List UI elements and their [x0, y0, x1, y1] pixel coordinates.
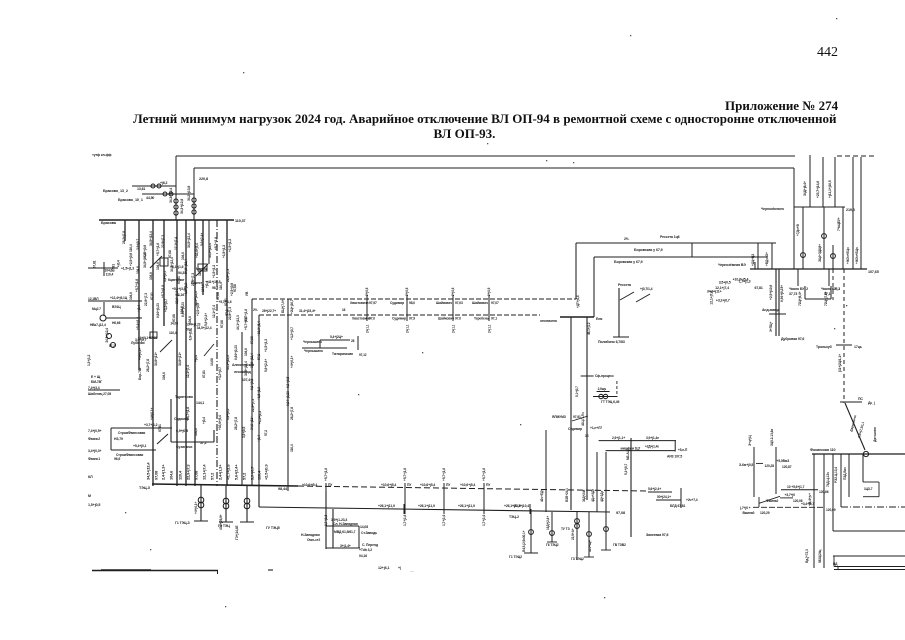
svg-text:22,9+j7,3: 22,9+j7,3	[251, 399, 255, 412]
svg-text:120,87: 120,87	[782, 465, 792, 469]
svg-text:3,9+j0,7: 3,9+j0,7	[136, 239, 140, 250]
svg-text:БЦ+j7,4+: БЦ+j7,4+	[281, 299, 285, 313]
svg-text:94,16: 94,16	[176, 293, 184, 297]
svg-text:ПУ: ПУ	[407, 483, 412, 487]
svg-text:Чернышино: Чернышино	[304, 349, 323, 353]
svg-text:2,4+j1,3+: 2,4+j1,3+	[218, 464, 223, 480]
svg-text:Шайкович: Шайкович	[472, 301, 488, 305]
svg-text:МЗ-АЦ3: МЗ-АЦ3	[626, 448, 630, 460]
svg-text:97,0: 97,0	[455, 317, 461, 321]
svg-text:120,29: 120,29	[760, 511, 770, 515]
svg-text:+ЖЗч+ЕЦч: +ЖЗч+ЕЦч	[846, 247, 850, 264]
svg-text:34Д+j8,4+: 34Д+j8,4+	[803, 181, 807, 196]
svg-text:2+j1,1: 2+j1,1	[452, 324, 456, 333]
svg-text:98,0: 98,0	[409, 301, 415, 305]
svg-text:12,1+j7,4: 12,1+j7,4	[212, 305, 216, 318]
svg-text:34,5+j12,4: 34,5+j12,4	[187, 233, 191, 248]
svg-text:34,9+j11+: 34,9+j11+	[250, 416, 254, 430]
svg-text:ПС: ПС	[858, 397, 863, 401]
svg-text:44,1+j12,3: 44,1+j12,3	[236, 315, 240, 330]
svg-text:Полибино 6,7/83: Полибино 6,7/83	[598, 340, 625, 344]
svg-text:Брасово_10_1: Брасово_10_1	[118, 198, 143, 202]
svg-text:РЭ2-Ц-13,4: РЭ2-Ц-13,4	[834, 467, 838, 483]
svg-text:Шайкович: Шайкович	[438, 317, 454, 321]
svg-text:+5,7+j1,6: +5,7+j1,6	[482, 468, 486, 481]
svg-text:0,94+j0,23: 0,94+j0,23	[234, 345, 238, 360]
svg-text:74Д-Ц-1Зч: 74Д-Ц-1Зч	[826, 472, 830, 487]
svg-text:14,08: 14,08	[360, 525, 368, 529]
svg-text:мищфам 1Ц7: мищфам 1Ц7	[621, 447, 641, 451]
svg-text:67,81: 67,81	[158, 424, 162, 432]
svg-text:2+j0,6: 2+j0,6	[405, 287, 409, 296]
svg-text:+5,7+j1,6: +5,7+j1,6	[214, 237, 218, 250]
svg-text:34,2+j13,8: 34,2+j13,8	[187, 186, 191, 201]
svg-text:+10,6+j5,4: +10,6+j5,4	[218, 415, 222, 430]
svg-text:0,94+j0,23+: 0,94+j0,23+	[780, 285, 784, 302]
svg-text:2+j1,1: 2+j1,1	[488, 324, 492, 333]
svg-text:Рессета 1ц6: Рессета 1ц6	[660, 235, 680, 239]
svg-text:+5,7+j1,6: +5,7+j1,6	[218, 300, 231, 304]
svg-text:Фаянс1: Фаянс1	[88, 457, 100, 461]
svg-text:+5,н-П: +5,н-П	[678, 448, 688, 452]
svg-text:Сф-процесс: Сф-процесс	[595, 374, 614, 378]
svg-text:+j0,4: +j0,4	[137, 305, 141, 312]
svg-text:+3,2+j0,7: +3,2+j0,7	[218, 367, 222, 380]
svg-text:28,2+j7,8: 28,2+j7,8	[234, 417, 238, 430]
svg-text:34,5+j12,4: 34,5+j12,4	[208, 243, 212, 258]
svg-text:4Д+2Де: 4Д+2Де	[600, 491, 604, 502]
svg-text:+5,4+j0,1: +5,4+j0,1	[133, 444, 147, 448]
svg-text:+ДТ+j0,4: +ДТ+j0,4	[576, 295, 580, 308]
svg-text:1,7+j1,6: 1,7+j1,6	[482, 515, 486, 526]
svg-text:41Ц-П-Лч: 41Ц-П-Лч	[581, 412, 585, 426]
svg-text:+4+j0,1+: +4+j0,1+	[290, 356, 294, 368]
svg-text:Боровская у 67,9: Боровская у 67,9	[614, 260, 643, 264]
svg-text:57,2: 57,2	[225, 309, 229, 315]
svg-text:110,4: 110,4	[290, 444, 294, 452]
svg-text:2%: 2%	[624, 237, 629, 241]
svg-text:+5,7+j1,6: +5,7+j1,6	[403, 468, 407, 481]
svg-text:Елм: Елм	[596, 317, 603, 321]
svg-text:Фжина2: Фжина2	[766, 499, 779, 503]
svg-text:17ць: 17ць	[854, 345, 862, 349]
svg-text:НВк7-j12,4: НВк7-j12,4	[90, 323, 106, 327]
svg-text:14,08: 14,08	[210, 358, 214, 366]
svg-text:Г1 ТЭЦ-З: Г1 ТЭЦ-З	[175, 521, 191, 525]
svg-text:Фокинская 110: Фокинская 110	[810, 448, 836, 452]
svg-text:+5,7+j1,6: +5,7+j1,6	[226, 464, 231, 480]
svg-text:13,61: 13,61	[137, 187, 145, 191]
svg-text:97,91: 97,91	[573, 415, 581, 419]
svg-text:97,12: 97,12	[359, 353, 367, 357]
svg-text:БМ-78Г: БМ-78Г	[91, 380, 102, 384]
svg-text:Судимир: Судимир	[390, 301, 404, 305]
svg-text:104,6: 104,6	[105, 268, 113, 272]
svg-text:16: 16	[342, 308, 346, 312]
svg-text:6,9+j0,5: 6,9+j0,5	[286, 377, 290, 388]
svg-text:12,1ВЛ: 12,1ВЛ	[88, 297, 99, 301]
svg-text:34,3+j12,4: 34,3+j12,4	[169, 188, 173, 203]
svg-text:(11+j2Ц/1,1+: (11+j2Ц/1,1+	[838, 354, 842, 372]
svg-text:72Ц+j7,4+: 72Ц+j7,4+	[824, 291, 828, 306]
svg-text:104,6: 104,6	[244, 348, 248, 356]
svg-text:2+j0,6: 2+j0,6	[487, 287, 491, 296]
svg-text:Чкало БУ_2: Чкало БУ_2	[789, 287, 808, 291]
svg-text:Тяглоримская: Тяглоримская	[332, 352, 353, 356]
svg-text:ВЭ1Ц: ВЭ1Ц	[112, 305, 121, 309]
svg-text:+ЖЗч+БЦч: +ЖЗч+БЦч	[855, 247, 859, 264]
svg-text:В4,5-j2,9х30,1+: В4,5-j2,9х30,1+	[522, 530, 526, 552]
svg-text:7,4+j0,5+: 7,4+j0,5+	[88, 429, 102, 433]
svg-text:М: М	[88, 494, 91, 498]
svg-text:+26,1+j11,9: +26,1+j11,9	[378, 504, 395, 508]
svg-text:12+j6,1: 12+j6,1	[378, 566, 389, 570]
svg-text:ВЗВ+24,1: ВЗВ+24,1	[565, 488, 569, 502]
svg-text:3,5+j0,5: 3,5+j0,5	[719, 281, 731, 285]
svg-text:12,1+j7,4: 12,1+j7,4	[202, 464, 207, 480]
svg-text:5,4+j2Ц+: 5,4+j2Ц+	[330, 335, 343, 339]
svg-text:+2Д+j1,4е: +2Д+j1,4е	[645, 445, 659, 449]
svg-text:+10,6+j5,4: +10,6+j5,4	[460, 483, 475, 487]
svg-text:ПУ: ПУ	[446, 483, 451, 487]
svg-text:67,81: 67,81	[754, 286, 762, 290]
svg-text:1,7+j1,3: 1,7+j1,3	[739, 279, 751, 283]
svg-text:7,4+j3,4: 7,4+j3,4	[88, 386, 100, 390]
svg-text:Хвастовичи: Хвастовичи	[352, 317, 371, 321]
svg-text:0,94+j0,23: 0,94+j0,23	[181, 302, 185, 317]
svg-text:ЗЦ5-2-13,4в: ЗЦ5-2-13,4в	[770, 429, 774, 446]
svg-text:5,1+j0,7: 5,1+j0,7	[624, 464, 628, 475]
svg-text:97,07: 97,07	[491, 301, 499, 305]
svg-text:104,6: 104,6	[162, 372, 166, 380]
svg-text:ЗЦ4+ЗДЦ9+: ЗЦ4+ЗДЦ9+	[818, 244, 822, 262]
svg-text:97,08: 97,08	[216, 292, 220, 300]
svg-text:94,34: 94,34	[178, 271, 186, 275]
svg-text:97,1: 97,1	[491, 317, 497, 321]
svg-text:БЛД 67,81: БЛД 67,81	[670, 504, 685, 508]
svg-text:1ЦЗ-7: 1ЦЗ-7	[864, 487, 873, 491]
svg-text:Чернозёмного: Чернозёмного	[761, 207, 784, 211]
svg-text:+j0,7/1,4: +j0,7/1,4	[640, 287, 653, 291]
svg-text:Фаянс2: Фаянс2	[88, 437, 100, 441]
svg-text:+3,2+j0,7: +3,2+j0,7	[716, 299, 730, 303]
svg-text:1,7+j1,6: 1,7+j1,6	[403, 515, 407, 526]
svg-text:97,03: 97,03	[455, 301, 463, 305]
svg-text:+j0,4: +j0,4	[257, 435, 261, 442]
svg-text:107,65: 107,65	[868, 270, 879, 274]
svg-text:Дубровка 97,6: Дубровка 97,6	[781, 337, 804, 341]
svg-text:+12,4+j9,1Ц: +12,4+j9,1Ц	[110, 296, 128, 300]
svg-text:Шибенец 27,08: Шибенец 27,08	[88, 392, 111, 396]
svg-text:57,2: 57,2	[210, 472, 215, 480]
svg-text:57,2: 57,2	[264, 430, 268, 436]
svg-text:лесозавод: лесозавод	[234, 370, 252, 374]
svg-text:2,9+j1,1+: 2,9+j1,1+	[612, 436, 625, 440]
svg-text:96,9: 96,9	[114, 457, 120, 461]
svg-text:+3,2+j0,7: +3,2+j0,7	[290, 327, 294, 340]
svg-text:+j0,4: +j0,4	[117, 260, 121, 267]
svg-text:АИЗ 107,5: АИЗ 107,5	[667, 455, 682, 459]
svg-text:+j0,4: +j0,4	[202, 417, 206, 424]
svg-text:34Д+24е: 34Д+24е	[582, 489, 586, 502]
svg-text:2,9щч: 2,9щч	[598, 387, 607, 391]
svg-text:+3,2+j0,7: +3,2+j0,7	[164, 299, 168, 312]
svg-text:49,1+j1,2: 49,1+j1,2	[587, 322, 591, 335]
svg-text:Алексеевская: Алексеевская	[232, 363, 254, 367]
svg-text:+5,7+j1,6: +5,7+j1,6	[442, 468, 446, 481]
svg-text:+10,6+j5,4: +10,6+j5,4	[420, 483, 435, 487]
svg-text:+21,3+j10,4: +21,3+j10,4	[512, 504, 529, 508]
svg-text:КЛ: КЛ	[88, 475, 93, 479]
svg-text:42ч+ЕД+: 42ч+ЕД+	[540, 489, 544, 502]
svg-text:44,50: 44,50	[146, 196, 154, 200]
svg-text:+23,7+j14,6: +23,7+j14,6	[816, 181, 820, 198]
svg-text:97,08: 97,08	[616, 511, 625, 515]
svg-text:110,4: 110,4	[257, 470, 262, 480]
svg-text:104,6: 104,6	[156, 262, 160, 270]
svg-text:Рессета: Рессета	[618, 283, 631, 287]
svg-text:44,1+j12,3: 44,1+j12,3	[226, 355, 230, 370]
svg-text:50+j24,1+: 50+j24,1+	[657, 495, 671, 499]
svg-text:5,6+j2,4+: 5,6+j2,4+	[264, 359, 268, 372]
svg-text:67,81: 67,81	[202, 370, 206, 378]
svg-text:+ВДч+О+: +ВДч+О+	[765, 252, 769, 266]
svg-text:16Д+j2,4+: 16Д+j2,4+	[546, 516, 550, 530]
svg-text:Мц2.7: Мц2.7	[92, 307, 101, 311]
svg-text:97,9: 97,9	[409, 317, 415, 321]
svg-text:107,4: 107,4	[242, 378, 250, 382]
svg-text:Ст.Заводь: Ст.Заводь	[361, 531, 377, 535]
svg-text:31,4+j23,4+: 31,4+j23,4+	[299, 309, 316, 313]
svg-text:12,1+j7,4: 12,1+j7,4	[186, 365, 190, 378]
svg-text:Зикеевка 97,6: Зикеевка 97,6	[646, 533, 668, 537]
svg-text:6,9+j0,5: 6,9+j0,5	[226, 409, 230, 420]
svg-text:ТУ ТЗ: ТУ ТЗ	[561, 527, 570, 531]
svg-text:Тролькуб: Тролькуб	[816, 345, 833, 349]
svg-text:97,08: 97,08	[154, 470, 159, 480]
svg-text:Судимир: Судимир	[392, 317, 406, 321]
svg-text:97,0: 97,0	[369, 317, 375, 321]
svg-text:Кцветоват: Кцветоват	[168, 278, 185, 282]
svg-text:+4+j0,1+: +4+j0,1+	[150, 408, 154, 420]
svg-text:+10,6+j5,4: +10,6+j5,4	[257, 321, 261, 336]
svg-text:144,1: 144,1	[196, 401, 204, 405]
svg-text:+26,1+j11,9: +26,1+j11,9	[458, 504, 475, 508]
svg-text:34,9+j11+: 34,9+j11+	[178, 352, 182, 366]
svg-text:2,4+j1,3+: 2,4+j1,3+	[161, 464, 166, 480]
svg-text:Лубянки: Лубянки	[131, 341, 144, 345]
svg-text:Чернышино: Чернышино	[303, 340, 322, 344]
svg-text:22,9+j7,3: 22,9+j7,3	[226, 269, 230, 282]
svg-text:+1,5+j1,3: +1,5+j1,3	[228, 239, 232, 252]
svg-text:+1,5+j1,3: +1,5+j1,3	[212, 265, 216, 278]
svg-text:+5,1+j3,8: +5,1+j3,8	[172, 287, 186, 291]
svg-text:+ДЦ+ЦЗ: +ДЦ+ЦЗ	[751, 254, 755, 266]
svg-text:10 +5,6+j1,7: 10 +5,6+j1,7	[787, 485, 805, 489]
svg-text:Н-Западная: Н-Западная	[301, 533, 320, 537]
svg-text:04,16: 04,16	[359, 554, 367, 558]
svg-text:+1,5+j1,3: +1,5+j1,3	[257, 387, 261, 400]
svg-text:2%: 2%	[253, 308, 258, 312]
svg-text:28,2+j7,8: 28,2+j7,8	[146, 359, 150, 372]
svg-text:110,4: 110,4	[169, 331, 177, 335]
svg-text:2+j1,1: 2+j1,1	[406, 324, 410, 333]
svg-text:72Ц+j9,4+: 72Ц+j9,4+	[798, 291, 802, 306]
svg-text:3+ПЦ+: 3+ПЦ+	[769, 322, 773, 332]
svg-text:+10,6+j5,4: +10,6+j5,4	[381, 483, 396, 487]
svg-text:98,5: 98,5	[212, 286, 218, 290]
svg-text:+2,5+j10,9: +2,5+j10,9	[769, 285, 773, 300]
svg-text:+Тdb 3,2: +Тdb 3,2	[359, 548, 372, 552]
svg-text:34,3+j12,8: 34,3+j12,8	[180, 199, 184, 214]
svg-text:ПУ: ПУ	[486, 483, 491, 487]
svg-text:Е + Щ: Е + Щ	[91, 375, 101, 379]
svg-text:1,5+j0,5: 1,5+j0,5	[88, 503, 100, 507]
svg-text:СтромФаянсовая: СтромФаянсовая	[118, 431, 145, 435]
svg-text:3,9+j0,7: 3,9+j0,7	[250, 467, 255, 480]
svg-text:22,9+j7,3: 22,9+j7,3	[186, 464, 191, 480]
svg-text:120,66: 120,66	[819, 490, 829, 494]
svg-text:41ч+Щ+: 41ч+Щ+	[588, 540, 592, 552]
svg-text:+j0,4: +j0,4	[194, 355, 198, 362]
svg-text:0,94+j0,23: 0,94+j0,23	[156, 303, 160, 318]
svg-text:57,2: 57,2	[200, 441, 207, 445]
svg-text:__: __	[409, 568, 415, 572]
svg-text:Брасово_13_2: Брасово_13_2	[103, 189, 128, 193]
svg-text:Боровская у 67,9: Боровская у 67,9	[634, 248, 663, 252]
svg-text:З-Км+j0,5: З-Км+j0,5	[739, 463, 753, 467]
svg-text:+5,7+j1,6: +5,7+j1,6	[161, 285, 165, 298]
svg-text:+1,5+j1,3: +1,5+j1,3	[258, 411, 262, 424]
svg-text:«утф кл-фф: «утф кл-фф	[92, 153, 111, 157]
svg-text:104,6: 104,6	[129, 292, 133, 300]
svg-text:120,28: 120,28	[765, 464, 775, 468]
svg-text:110,4: 110,4	[178, 470, 183, 480]
svg-text:34,5+j12,4: 34,5+j12,4	[149, 231, 153, 246]
svg-text:5,6+j2,4+: 5,6+j2,4+	[200, 233, 204, 246]
svg-text:+10,6+j5,4: +10,6+j5,4	[195, 243, 199, 258]
svg-text:ТЭЦ-2: ТЭЦ-2	[509, 515, 519, 519]
svg-text:+j6,2: +j6,2	[160, 181, 168, 185]
svg-text:2+j0,6: 2+j0,6	[365, 287, 369, 296]
svg-text:Брасова: Брасова	[101, 221, 117, 225]
svg-text:+5,7+j1,6: +5,7+j1,6	[324, 468, 328, 481]
svg-text:+1,5+j1,3: +1,5+j1,3	[264, 339, 268, 352]
svg-text:+26,1+j11,9: +26,1+j11,9	[418, 504, 435, 508]
svg-text:Дятьково: Дятьково	[873, 427, 877, 442]
svg-text:28+j22,7+: 28+j22,7+	[262, 309, 276, 313]
svg-text:34,9+j11+: 34,9+j11+	[154, 352, 158, 366]
svg-text:0,94+j0,23: 0,94+j0,23	[186, 322, 201, 326]
svg-text:+3,4+j0,7: +3,4+j0,7	[801, 502, 814, 506]
svg-text:6,9+j0,5: 6,9+j0,5	[250, 379, 254, 390]
svg-text:+2ч+7,4: +2ч+7,4	[686, 498, 698, 502]
svg-text:Берест: Берест	[191, 281, 203, 285]
svg-text:97,08: 97,08	[168, 250, 172, 258]
svg-text:1,7+j1,6: 1,7+j1,6	[324, 515, 328, 526]
svg-text:+5,0ВмЗ: +5,0ВмЗ	[777, 459, 790, 463]
svg-text:34,5+j12,4: 34,5+j12,4	[143, 253, 147, 268]
svg-text:+1,н+Л7: +1,н+Л7	[590, 426, 602, 430]
svg-text:5,6+j2,4+: 5,6+j2,4+	[648, 487, 661, 491]
svg-text:ГВ ТЗВ2: ГВ ТЗВ2	[613, 543, 626, 547]
svg-text:582Ц/24ц: 582Ц/24ц	[818, 550, 822, 563]
svg-text:6,9+j0,5: 6,9+j0,5	[176, 429, 188, 433]
svg-text:67,81: 67,81	[150, 292, 154, 300]
svg-text:Чернозёмная ВЭ: Чернозёмная ВЭ	[718, 263, 746, 267]
svg-text:104,6: 104,6	[169, 470, 174, 480]
svg-text:104,6: 104,6	[136, 266, 140, 274]
svg-text:МВД 61,5/61,7: МВД 61,5/61,7	[334, 530, 356, 534]
svg-text:1,3+j1,2: 1,3+j1,2	[87, 355, 91, 366]
svg-text:+5,7+j1,6: +5,7+j1,6	[135, 279, 139, 292]
svg-text:Г1 ТЭЦ2: Г1 ТЭЦ2	[509, 555, 522, 559]
svg-text:1,7+j1,6: 1,7+j1,6	[442, 515, 446, 526]
svg-text:34,5+j12,4: 34,5+j12,4	[146, 462, 151, 480]
svg-text:+j11,1+j10,5: +j11,1+j10,5	[828, 180, 832, 198]
svg-text:Own-ст2: Own-ст2	[307, 538, 320, 542]
svg-text:Судимир: Судимир	[174, 417, 189, 421]
svg-text:1б: 1б	[585, 434, 589, 438]
svg-text:ТЭЦ-З: ТЭЦ-З	[139, 486, 151, 490]
svg-text:УВ: УВ	[245, 291, 249, 296]
svg-text:ЯЛМУМЗ: ЯЛМУМЗ	[552, 415, 566, 419]
svg-text:104,6: 104,6	[149, 272, 153, 280]
svg-text:+1,5+j1,3: +1,5+j1,3	[121, 266, 134, 270]
svg-text:НЗ,79: НЗ,79	[114, 437, 123, 441]
svg-text:3,4+j0,3+: 3,4+j0,3+	[88, 449, 102, 453]
svg-text:2+j1,1: 2+j1,1	[366, 324, 370, 333]
svg-text:28,2+j7,8: 28,2+j7,8	[122, 231, 126, 244]
svg-text:+5,7+j1,6: +5,7+j1,6	[244, 317, 248, 330]
svg-text:ВД: ВД	[833, 562, 838, 566]
svg-text:28: 28	[351, 339, 355, 343]
svg-text:ПУ: ПУ	[328, 483, 333, 487]
svg-text:3,9+j1,4е: 3,9+j1,4е	[646, 436, 659, 440]
svg-text:+2Ц+j10,7: +2Ц+j10,7	[290, 299, 294, 314]
svg-text:34,5+j12,4: 34,5+j12,4	[105, 328, 109, 343]
svg-text:+2,5+j0,9: +2,5+j0,9	[264, 464, 269, 480]
svg-text:37,73: 37,73	[789, 292, 797, 296]
svg-text:+10,6+j5,4: +10,6+j5,4	[302, 483, 317, 487]
svg-text:97,97: 97,97	[369, 301, 377, 305]
svg-text:+|: +|	[398, 566, 401, 570]
svg-text:104,6: 104,6	[194, 428, 198, 436]
svg-text:57,2: 57,2	[109, 344, 115, 348]
svg-text:5,1+j0,7: 5,1+j0,7	[575, 386, 579, 397]
svg-text:ГЗ+j14,4Е: ГЗ+j14,4Е	[235, 525, 239, 540]
svg-text:97,08: 97,08	[233, 284, 237, 292]
svg-text:220,8: 220,8	[199, 177, 208, 181]
svg-text:Сл. Н-Западная: Сл. Н-Западная	[333, 522, 358, 526]
svg-text:110,4: 110,4	[129, 244, 133, 252]
svg-text:3,9+j0,7: 3,9+j0,7	[163, 271, 167, 282]
svg-text:+5,4+j1,2: +5,4+j1,2	[136, 317, 140, 330]
svg-text:Г6 ТЭЦ2: Г6 ТЭЦ2	[546, 543, 559, 547]
svg-text:ГТ ТЭЦ 6,49: ГТ ТЭЦ 6,49	[601, 400, 620, 404]
svg-text:3,5+j0,5: 3,5+j0,5	[242, 427, 246, 438]
svg-text:4Дч+2Де: 4Дч+2Де	[591, 489, 595, 502]
svg-text:120,09: 120,09	[826, 508, 836, 512]
svg-text:Чкало БУ_1: Чкало БУ_1	[821, 287, 840, 291]
svg-text:14,08: 14,08	[170, 322, 178, 326]
svg-text:5,6+j2,4+: 5,6+j2,4+	[204, 313, 208, 326]
svg-text:+5,7+j1,6: +5,7+j1,6	[156, 243, 160, 256]
svg-text:0,94+j0,23: 0,94+j0,23	[286, 391, 290, 406]
svg-text:ГУ ТЭЦ5: ГУ ТЭЦ5	[266, 526, 280, 530]
svg-text:97,08: 97,08	[250, 336, 254, 344]
svg-text:2+j0,6: 2+j0,6	[451, 287, 455, 296]
